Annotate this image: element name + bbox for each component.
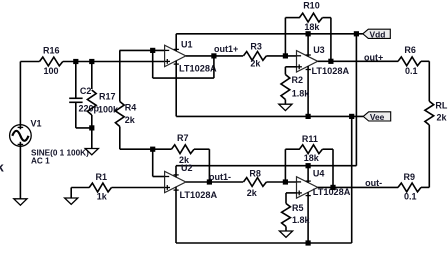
- wire C2 top lead: [75, 62, 77, 99]
- junction node at U3 inverting input: [283, 53, 288, 58]
- svg-text:R10: R10: [303, 0, 320, 10]
- wire R7 right leg to out1- node: [208, 149, 210, 182]
- wire bottom Vee rail: [176, 242, 352, 244]
- svg-text:V1: V1: [31, 118, 42, 128]
- svg-text:2k: 2k: [125, 115, 136, 125]
- label R5: [292, 203, 304, 213]
- svg-text:R4: R4: [125, 102, 137, 112]
- svg-text:100: 100: [44, 66, 59, 76]
- value 2k for R4: [125, 115, 136, 125]
- junction node out1-: [207, 179, 212, 184]
- wire U4 V- pin: [306, 192, 311, 243]
- wire U1 inverting input: [120, 49, 165, 51]
- label R1: [96, 172, 108, 182]
- svg-text:18k: 18k: [304, 22, 320, 32]
- junction node at U4 inverting input: [283, 179, 288, 184]
- svg-text:2k: 2k: [437, 113, 448, 123]
- wire R4 top lead from U1 inverting input: [119, 50, 121, 101]
- label R6: [404, 45, 416, 55]
- label R10: [303, 0, 320, 10]
- wire R6 right to RL top: [421, 61, 429, 101]
- svg-text:R11: R11: [302, 134, 318, 144]
- value 100k: [98, 104, 119, 114]
- junction node U3 V+ on Vdd rail: [306, 31, 311, 36]
- value 0.1 for R6: [405, 66, 418, 76]
- svg-text:1.8k: 1.8k: [292, 88, 311, 98]
- value 2k for R3: [250, 59, 261, 69]
- wire U2 output out1-: [186, 181, 243, 183]
- wire Vee rail: [176, 115, 363, 117]
- svg-text:18k: 18k: [304, 153, 320, 163]
- svg-text:R1: R1: [96, 172, 108, 182]
- svg-text:U3: U3: [313, 45, 325, 55]
- wire U4 output to out- and R9: [318, 186, 399, 188]
- junction node at R10 right leg on out+ wire: [328, 59, 333, 64]
- node label out-: [365, 178, 382, 188]
- wire R4 bottom lead: [119, 127, 121, 150]
- value 18k for R11: [304, 153, 320, 163]
- svg-text:LT1028A: LT1028A: [180, 190, 218, 200]
- resistor R4: [115, 102, 124, 127]
- svg-text:1k: 1k: [97, 192, 108, 202]
- label U1: [181, 40, 193, 50]
- junction node R4-R7-U2 inverting: [150, 147, 155, 152]
- svg-text:1.8k: 1.8k: [292, 215, 311, 225]
- wire U2 V- pin to bottom rail: [174, 187, 179, 243]
- svg-text:R7: R7: [177, 133, 189, 143]
- resistor R9: [398, 183, 429, 192]
- wire R4 to R7 junction: [120, 148, 153, 150]
- svg-text:C2: C2: [80, 86, 92, 96]
- svg-text:U1: U1: [181, 40, 193, 50]
- label LT1028A of U1: [179, 64, 217, 74]
- value 1.8k for R2: [292, 88, 311, 98]
- wire R1 from ground to U2 noninverting input: [71, 188, 164, 199]
- value 2k for R7: [179, 155, 190, 165]
- svg-text:R5: R5: [292, 203, 304, 213]
- svg-text:LT1028A: LT1028A: [312, 66, 350, 76]
- junction node Vdd drop on Vdd rail: [354, 31, 359, 36]
- resistor R16: [40, 57, 63, 66]
- label R17: [99, 91, 116, 101]
- ground at R1 left: [65, 198, 78, 204]
- junction node at C2/R17 bottom: [89, 125, 94, 130]
- svg-text:R9: R9: [404, 172, 416, 182]
- label R11: [302, 134, 318, 144]
- wire Vdd drop to lower Vdd rail: [176, 34, 356, 166]
- resistor R10: [299, 13, 322, 22]
- svg-text:out-: out-: [365, 178, 382, 188]
- wire R17 bottom lead: [91, 115, 93, 128]
- label R3: [250, 42, 262, 52]
- wire Vdd rail: [176, 33, 363, 35]
- label R4: [125, 102, 137, 112]
- value 1k for R1: [97, 192, 108, 202]
- value 100 for R16: [44, 66, 59, 76]
- junction node at R11 right leg on out- wire: [330, 185, 335, 190]
- wire V1 bottom to ground: [19, 142, 21, 199]
- svg-text:0.1: 0.1: [405, 66, 418, 76]
- op-amp U1: [165, 45, 186, 66]
- junction node U4 V- on bottom rail: [306, 240, 311, 245]
- label R9: [404, 172, 416, 182]
- label R8: [249, 169, 261, 179]
- ground below R5: [279, 231, 292, 237]
- resistor R17: [87, 90, 96, 115]
- wire R11 left leg: [285, 149, 299, 182]
- node label out1+: [214, 44, 238, 54]
- label LT1028A of U4: [313, 187, 351, 197]
- wire U4 noninverting input to R5: [286, 193, 297, 204]
- label LT1028A of U3: [312, 66, 350, 76]
- wire U4 V+ pin: [306, 166, 311, 183]
- svg-text:2k: 2k: [250, 59, 261, 69]
- op-amp U4: [297, 177, 318, 198]
- svg-text:LT1028A: LT1028A: [179, 64, 217, 74]
- ground below R2: [279, 104, 292, 110]
- label U2: [181, 163, 193, 173]
- wire V1 top to rail: [19, 62, 21, 130]
- svg-text:R8: R8: [249, 169, 261, 179]
- resistor R1: [89, 183, 111, 192]
- svg-text:100k: 100k: [98, 104, 119, 114]
- node label out+: [364, 53, 383, 63]
- stray label k at left edge: [0, 160, 5, 175]
- svg-text:R6: R6: [404, 45, 416, 55]
- resistor R11: [299, 145, 322, 154]
- wire R2 bottom to ground: [284, 100, 286, 105]
- label RL: [435, 101, 447, 111]
- label LT1028A of U2: [180, 190, 218, 200]
- svg-text:out+: out+: [364, 53, 383, 63]
- label V1: [31, 118, 42, 128]
- svg-text:0.1: 0.1: [404, 191, 417, 201]
- wire U3 output to out+ and R6: [318, 60, 399, 62]
- wire U3 V+ pin: [306, 34, 311, 57]
- wire Vee drop to bottom Vee rail: [351, 116, 353, 243]
- label R7: [177, 133, 189, 143]
- svg-text:R2: R2: [292, 75, 304, 85]
- wire input rail from R16 to U1 noninverting input: [20, 61, 164, 63]
- wire down to ground from C2/R17 node: [91, 128, 93, 149]
- wire U3 V- pin: [306, 66, 311, 116]
- capacitor C2: [69, 98, 82, 102]
- junction node at C2 top: [73, 59, 78, 64]
- value 0.1 for R9: [404, 191, 417, 201]
- resistor R5: [282, 204, 291, 227]
- wire R10 right leg: [322, 18, 331, 62]
- svg-text:U2: U2: [181, 163, 193, 173]
- value 18k for R10: [304, 22, 320, 32]
- label R2: [292, 75, 304, 85]
- wire R11 right leg: [322, 149, 333, 187]
- ground below C2 and R17: [85, 149, 98, 155]
- svg-text:R3: R3: [250, 42, 262, 52]
- wire RL bottom to R9: [428, 125, 430, 187]
- wire C2 bottom lead: [75, 102, 77, 128]
- resistor R2: [281, 75, 290, 100]
- value 220p: [79, 104, 100, 114]
- op-amp U3: [297, 51, 318, 72]
- wire C2-R17 bottom node: [76, 127, 92, 129]
- svg-text:AC 1: AC 1: [31, 156, 50, 165]
- wire R10 left leg: [285, 18, 299, 56]
- resistor R7 with leads: [153, 145, 210, 154]
- wire down to U2 inverting input: [153, 149, 165, 176]
- resistor RL: [425, 101, 434, 125]
- wire R8 to U4 inverting input: [266, 181, 296, 183]
- svg-text:R17: R17: [99, 91, 116, 101]
- junction node out1+ feedback tap: [211, 53, 216, 58]
- node label out1-: [209, 172, 231, 182]
- svg-text:R16: R16: [43, 45, 60, 55]
- wire R17 top lead: [91, 62, 93, 90]
- label R16: [43, 45, 60, 55]
- wire R3 to U3 inverting input: [266, 55, 296, 57]
- flag Vdd: [363, 29, 391, 39]
- label U3: [313, 45, 325, 55]
- svg-text:out1+: out1+: [214, 44, 238, 54]
- label U4: [313, 168, 325, 178]
- svg-text:out1-: out1-: [209, 172, 231, 182]
- junction node at R17 top: [89, 59, 94, 64]
- wire U2 V+ pin from lower Vdd rail: [174, 166, 179, 178]
- resistor R3: [243, 52, 266, 61]
- label C2: [80, 86, 92, 96]
- flag Vee: [363, 112, 391, 122]
- svg-text:2k: 2k: [247, 188, 258, 198]
- wire U1 feedback from output node down and to inverting input: [153, 50, 214, 78]
- value AC 1: [31, 156, 50, 165]
- svg-text:Vee: Vee: [370, 112, 385, 122]
- value 2k for R8: [247, 188, 258, 198]
- junction node U4 V+ on lower Vdd rail: [306, 163, 311, 168]
- value 2k for RL: [437, 113, 448, 123]
- wire U1 V- pin down to Vee rail: [174, 61, 179, 117]
- junction node U3 V- on Vee rail: [306, 114, 311, 119]
- svg-text:RL: RL: [435, 101, 447, 111]
- junction node at U1 inverting input: [150, 48, 155, 53]
- svg-text:Vdd: Vdd: [370, 29, 386, 39]
- wire U1 V+ pin to Vdd rail: [174, 34, 179, 51]
- voltage source V1: [10, 125, 32, 147]
- ground below V1: [14, 199, 27, 205]
- resistor R6: [398, 57, 421, 66]
- wire R5 bottom to ground: [285, 227, 287, 232]
- svg-text:U4: U4: [313, 168, 325, 178]
- value SINE(0 1 100K): [31, 148, 89, 157]
- op-amp U2: [165, 171, 186, 192]
- resistor R8: [243, 178, 266, 187]
- junction node Vee drop on Vee rail: [349, 114, 354, 119]
- wire U3 noninverting input to R2: [285, 67, 296, 75]
- wire U1 output to out1+ node: [186, 55, 243, 57]
- value 1.8k for R5: [292, 215, 311, 225]
